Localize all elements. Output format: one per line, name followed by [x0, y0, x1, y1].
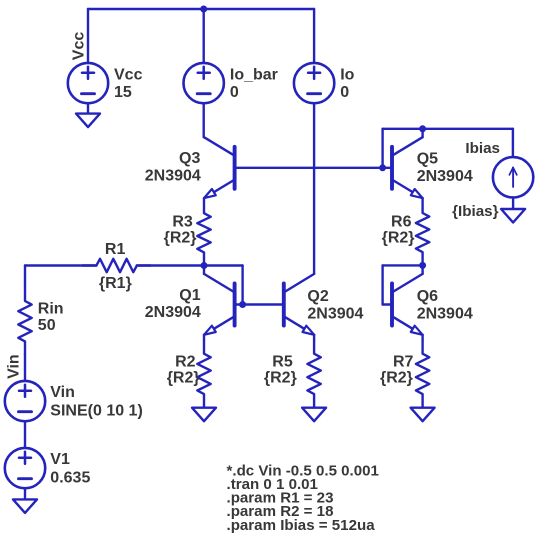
spice directive line 5 — [227, 517, 376, 534]
svg-text:0.635: 0.635 — [50, 469, 90, 486]
wire — [137, 264, 243, 266]
resistor Rin — [18, 286, 31, 354]
wire — [88, 8, 314, 10]
wire — [87, 9, 89, 63]
wire — [383, 128, 513, 130]
transistor Q3 — [204, 137, 235, 198]
svg-text:2N3904: 2N3904 — [307, 305, 363, 322]
ground — [302, 408, 326, 422]
wire — [421, 129, 423, 137]
wire — [241, 266, 243, 305]
svg-text:R1: R1 — [105, 241, 126, 258]
svg-text:{R1}: {R1} — [99, 275, 132, 292]
Q1 value label — [145, 304, 201, 321]
R6 name label — [391, 214, 412, 231]
spice directive line 2 — [227, 476, 318, 493]
resistor R5 — [307, 340, 320, 408]
svg-text:R5: R5 — [272, 353, 293, 370]
transistor Q6 — [392, 274, 423, 335]
Vcc name label — [114, 66, 143, 83]
svg-text:Rin: Rin — [38, 300, 64, 317]
R3 value label — [164, 229, 197, 246]
resistor R7 — [416, 340, 429, 408]
wire — [202, 9, 204, 63]
wire — [383, 264, 423, 266]
wire — [512, 129, 514, 158]
R3 name label — [172, 213, 193, 230]
svg-text:Ibias: Ibias — [465, 140, 500, 157]
Io_bar name label — [230, 66, 278, 83]
svg-text:Vcc: Vcc — [114, 66, 143, 83]
svg-text:{R2}: {R2} — [164, 229, 197, 246]
wire — [421, 335, 423, 340]
Vin name label — [50, 384, 75, 401]
Ibias name label — [465, 140, 500, 157]
wire — [203, 335, 205, 340]
wire — [383, 303, 392, 305]
wire — [24, 421, 26, 448]
svg-text:2N3904: 2N3904 — [145, 304, 201, 321]
voltage source Vin — [5, 381, 45, 421]
wire — [24, 354, 26, 381]
wire — [512, 197, 514, 209]
ground — [501, 209, 525, 223]
Q1 name label — [179, 287, 200, 304]
resistor R2 — [197, 340, 210, 408]
wire — [24, 266, 26, 286]
voltage source Io — [294, 63, 334, 103]
Q2 value label — [307, 305, 363, 322]
V1 name label — [50, 451, 70, 468]
resistor R3 — [197, 198, 210, 265]
wire — [87, 103, 89, 114]
Q3 value label — [145, 168, 201, 185]
junction top rail / Io_bar — [200, 6, 207, 13]
svg-text:Q5: Q5 — [417, 151, 438, 168]
R5 value label — [264, 369, 297, 386]
svg-text:Vin: Vin — [50, 384, 75, 401]
junction Q1/Q2 base row — [239, 301, 246, 308]
net label Vin (vertical) — [6, 354, 23, 379]
junction Ibias rail / Q5 collector — [419, 125, 426, 132]
svg-text:SINE(0 10 1): SINE(0 10 1) — [50, 402, 142, 419]
svg-text:R7: R7 — [393, 353, 414, 370]
svg-text:Io_bar: Io_bar — [230, 66, 278, 83]
svg-text:R3: R3 — [172, 213, 193, 230]
svg-text:0: 0 — [230, 84, 239, 101]
svg-text:Q1: Q1 — [179, 287, 200, 304]
current source Ibias — [493, 157, 533, 197]
svg-text:{R2}: {R2} — [264, 369, 297, 386]
resistor R6 — [416, 198, 429, 265]
R5 name label — [272, 353, 293, 370]
wire — [235, 167, 392, 169]
Vcc value label — [114, 84, 132, 101]
Ibias value label — [452, 203, 499, 220]
wire — [381, 265, 383, 304]
ground — [76, 114, 100, 128]
Vin value label — [50, 402, 142, 419]
Q3 name label — [179, 150, 200, 167]
svg-text:V1: V1 — [50, 451, 70, 468]
Io value label — [340, 84, 349, 101]
ground — [192, 408, 216, 422]
junction R6 bottom / Q6 — [419, 262, 426, 269]
transistor Q5 — [392, 137, 423, 198]
svg-text:2N3904: 2N3904 — [417, 305, 473, 322]
svg-text:{Ibias}: {Ibias} — [452, 203, 499, 220]
wire — [202, 103, 204, 137]
R7 value label — [380, 369, 413, 386]
svg-text:Q6: Q6 — [417, 288, 438, 305]
svg-text:2N3904: 2N3904 — [417, 168, 473, 185]
wire — [203, 266, 205, 274]
svg-text:R6: R6 — [391, 214, 412, 231]
net label Vcc (vertical) — [71, 32, 88, 61]
wire — [25, 264, 96, 266]
wire — [313, 9, 315, 63]
Q6 name label — [417, 288, 438, 305]
svg-text:R2: R2 — [175, 353, 196, 370]
svg-text:Io: Io — [340, 66, 354, 83]
Rin name label — [38, 300, 64, 317]
voltage source Io_bar — [184, 63, 224, 103]
transistor Q1 — [204, 274, 235, 335]
spice directive line 3 — [227, 490, 334, 507]
junction Q5 base — [379, 164, 386, 171]
svg-text:15: 15 — [114, 84, 132, 101]
spice directive line 1 — [227, 463, 379, 480]
voltage source Vcc — [68, 63, 108, 103]
Q5 name label — [417, 151, 438, 168]
Q6 value label — [417, 305, 473, 322]
svg-text:Q3: Q3 — [179, 150, 200, 167]
voltage source V1 — [5, 448, 45, 488]
svg-text:Vin: Vin — [6, 354, 23, 379]
Rin value label — [38, 317, 56, 334]
R2 value label — [167, 369, 200, 386]
R1 name label — [105, 241, 126, 258]
svg-text:{R2}: {R2} — [167, 369, 200, 386]
svg-text:2N3904: 2N3904 — [145, 168, 201, 185]
Io name label — [340, 66, 354, 83]
svg-text:50: 50 — [38, 317, 56, 334]
junction node row / R3 — [201, 262, 208, 269]
R1 value label — [99, 275, 132, 292]
svg-text:0: 0 — [340, 84, 349, 101]
ground — [411, 408, 435, 422]
Q5 value label — [417, 168, 473, 185]
wire — [313, 103, 315, 274]
wire — [24, 488, 26, 499]
Q2 name label — [307, 288, 328, 305]
V1 value label — [50, 469, 90, 486]
svg-text:{R2}: {R2} — [382, 230, 415, 247]
transistor Q2 — [284, 274, 314, 335]
svg-text:{R2}: {R2} — [380, 369, 413, 386]
Io_bar value label — [230, 84, 239, 101]
R7 name label — [393, 353, 414, 370]
wire — [381, 129, 383, 168]
svg-text:.param Ibias = 512ua: .param Ibias = 512ua — [227, 517, 376, 534]
wire — [421, 265, 423, 274]
svg-text:Vcc: Vcc — [71, 32, 88, 61]
wire — [235, 303, 284, 305]
R2 name label — [175, 353, 196, 370]
resistor R1 — [83, 259, 151, 272]
ground — [13, 499, 37, 513]
R6 value label — [382, 230, 415, 247]
svg-text:Q2: Q2 — [307, 288, 328, 305]
wire — [313, 335, 315, 340]
spice directive line 4 — [227, 503, 334, 520]
